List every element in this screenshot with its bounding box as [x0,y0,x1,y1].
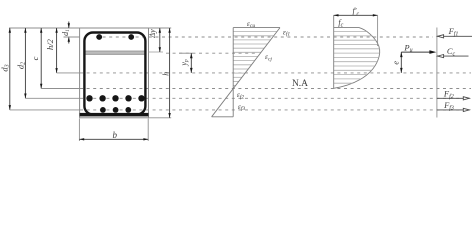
svg-text:h: h [162,72,171,76]
svg-text:Δy: Δy [148,29,157,39]
svg-text:e: e [392,61,401,65]
svg-text:c: c [30,56,40,60]
svg-text:b: b [113,130,118,140]
svg-text:h/2: h/2 [45,38,55,50]
svg-text:N.A: N.A [292,79,308,89]
